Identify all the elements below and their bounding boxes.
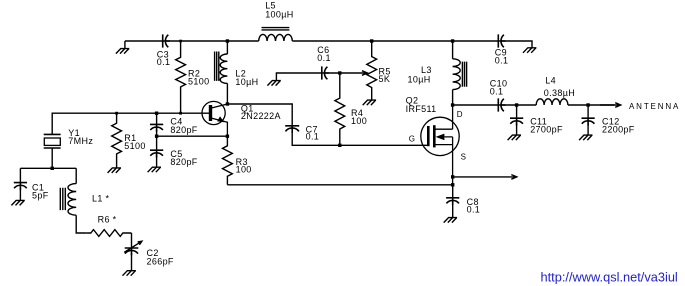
arrow source line: [453, 175, 517, 180]
wire C7 to gate line: [292, 131, 428, 145]
resistor R3: [223, 136, 233, 185]
svg-text:10µH: 10µH: [408, 75, 431, 85]
capacitor C7: [285, 126, 299, 133]
svg-text:0.1: 0.1: [317, 53, 331, 63]
wire C8 top lead: [452, 185, 454, 198]
svg-text:0.1: 0.1: [495, 55, 509, 65]
wire C5 to ground: [156, 156, 158, 168]
wire top supply rail: [125, 40, 163, 42]
svg-text:http://www.qsl.net/va3iul: http://www.qsl.net/va3iul: [541, 269, 678, 284]
capacitor C12: [582, 118, 595, 125]
wire collector to C7: [227, 104, 292, 126]
wire C2 to ground: [131, 253, 133, 270]
svg-text:820pF: 820pF: [170, 157, 197, 167]
capacitor C9: [498, 34, 505, 47]
junction L3 top: [451, 39, 454, 42]
wire C11 top lead: [516, 105, 518, 118]
ground top-right: [523, 48, 536, 53]
capacitor C8: [446, 198, 459, 205]
svg-text:D: D: [457, 110, 463, 119]
wire C9 to right ground: [500, 41, 532, 48]
wire L1 top lead: [75, 168, 77, 183]
svg-text:0.1: 0.1: [157, 57, 171, 67]
wire L3 top lead: [452, 41, 454, 59]
resistor R1: [112, 113, 122, 168]
wire rail L5 to C9: [292, 40, 498, 42]
junction R2 bottom: [179, 112, 182, 115]
wire L2 top lead: [226, 41, 228, 54]
core of L1: [60, 188, 65, 210]
junction R5 top: [370, 39, 373, 42]
junction R1 top: [115, 112, 118, 115]
core of L5: [262, 28, 290, 30]
arrow to antenna: [600, 103, 621, 108]
wire C6 ground lead: [276, 73, 321, 81]
junction L2 top: [226, 39, 229, 42]
wire emitter to C4 node: [157, 135, 228, 137]
wire drain to C10: [453, 104, 499, 106]
svg-text:100: 100: [351, 116, 367, 126]
svg-text:0.38µH: 0.38µH: [544, 88, 575, 98]
junction source bottom node: [451, 183, 454, 186]
arrow R5 wiper: [340, 71, 368, 76]
arrow of trimmer C2: [124, 241, 142, 252]
svg-text:S: S: [461, 153, 467, 162]
wire C4 top lead: [156, 113, 158, 124]
capacitor C2: [125, 248, 139, 255]
svg-text:7MHz: 7MHz: [68, 136, 93, 146]
wire C10 to C11 node: [500, 104, 536, 106]
svg-text:266pF: 266pF: [147, 256, 174, 266]
ground C5: [148, 167, 161, 172]
ground top-left: [116, 41, 129, 54]
wire C12 to ground: [587, 124, 589, 136]
ground C8: [444, 218, 457, 223]
svg-text:L4: L4: [545, 76, 556, 86]
ground C12: [579, 135, 592, 140]
inductor L2: [220, 54, 227, 83]
svg-text:L1 *: L1 *: [92, 193, 110, 203]
junction C4 top: [155, 112, 158, 115]
transistor Q1 2N2222A: [202, 101, 227, 136]
wire L1 to R6: [76, 215, 87, 233]
ground R1: [108, 168, 121, 173]
junction source arrow node: [451, 175, 454, 178]
svg-text:5K: 5K: [379, 74, 391, 84]
core of L2: [215, 52, 219, 81]
wire R6 to C2: [131, 233, 133, 248]
svg-text:5100: 5100: [124, 141, 145, 151]
svg-text:IRF511: IRF511: [406, 104, 437, 114]
svg-text:820pF: 820pF: [170, 125, 197, 135]
junction Q1 emitter node: [226, 135, 229, 138]
svg-text:G: G: [409, 134, 416, 143]
svg-text:2N2222A: 2N2222A: [241, 111, 281, 121]
wire Y1 bottom lead: [51, 148, 53, 168]
svg-text:0.1: 0.1: [467, 205, 481, 215]
wire bottom source line: [227, 184, 452, 186]
wire C4-C5 node lead: [156, 130, 158, 150]
wire C1 to ground: [19, 188, 21, 200]
junction R2 top: [179, 40, 182, 43]
svg-text:5100: 5100: [188, 77, 209, 87]
svg-text:100: 100: [236, 165, 252, 175]
capacitor C11: [510, 118, 523, 125]
wire C12 top lead: [587, 105, 589, 118]
junction C4 C5 emitter node: [155, 135, 158, 138]
inductor L5: [259, 34, 293, 41]
junction drain node: [451, 103, 454, 106]
svg-text:0.1: 0.1: [306, 132, 320, 142]
junction C12 node: [586, 103, 589, 106]
svg-text:0.1: 0.1: [490, 87, 504, 97]
inductor L1: [68, 184, 76, 216]
inductor L4: [536, 99, 568, 105]
svg-text:5pF: 5pF: [32, 191, 49, 201]
wire base line: [52, 113, 209, 134]
svg-text:2700pF: 2700pF: [530, 125, 563, 135]
wire C11 to ground: [516, 124, 518, 136]
wire L3 to drain: [452, 90, 454, 105]
wire C6 to R4 node: [324, 72, 340, 74]
resistor R6: [87, 230, 132, 237]
capacitor C1: [14, 183, 27, 190]
transistor Q2 IRF511: [421, 105, 459, 185]
svg-text:100µH: 100µH: [265, 9, 293, 19]
ground C6: [267, 81, 280, 86]
svg-text:10µH: 10µH: [235, 77, 258, 87]
svg-text:R6 *: R6 *: [98, 215, 117, 225]
core of L3: [462, 62, 466, 87]
svg-text:2200pF: 2200pF: [602, 125, 635, 135]
crystal Y1: [44, 134, 61, 148]
svg-text:ANTENNA: ANTENNA: [629, 102, 680, 111]
inductor L3: [453, 59, 461, 90]
junction Q1 collector node: [226, 102, 229, 105]
capacitor C10: [498, 98, 505, 111]
ground C1: [11, 200, 24, 205]
ground C2: [123, 271, 136, 276]
capacitor C6: [322, 66, 329, 79]
ground C11: [508, 135, 521, 140]
capacitor C5: [150, 150, 163, 157]
junction C6 R4 R5: [338, 71, 341, 74]
wire L2 to collector node: [226, 83, 228, 104]
wire C1 top lead: [19, 168, 21, 182]
ground R5: [363, 100, 376, 105]
capacitor C4: [150, 124, 163, 131]
junction R4 bottom: [338, 144, 341, 147]
resistor R2: [176, 41, 186, 113]
wire rail C3 to L5: [165, 40, 259, 42]
capacitor C3: [163, 34, 170, 47]
resistor R5: [367, 41, 377, 100]
wire L4 to C12 node: [568, 104, 615, 106]
junction Y1 bottom: [51, 167, 54, 170]
wire crystal bottom node: [20, 167, 76, 169]
junction C11 node: [515, 103, 518, 106]
wire C8 to ground: [452, 203, 454, 217]
resistor R4: [335, 73, 345, 145]
